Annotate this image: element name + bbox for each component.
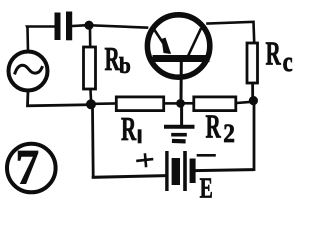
battery minus sign bbox=[198, 154, 215, 157]
resistor Rc bbox=[247, 43, 258, 83]
node A junction dot bbox=[84, 21, 93, 30]
ground bbox=[166, 107, 193, 141]
figure number 7 badge bbox=[7, 139, 56, 194]
capacitor C1 bbox=[55, 12, 73, 41]
wire Rc bottom to node C bbox=[251, 84, 254, 99]
wire node A to transistor bbox=[93, 25, 147, 27]
wire node B down to bottom rail bbox=[91, 108, 94, 177]
label E bbox=[200, 173, 213, 205]
resistor R2 bbox=[194, 97, 236, 111]
svg-text:R: R bbox=[105, 41, 121, 78]
svg-text:R: R bbox=[121, 111, 137, 148]
transistor VT1 bbox=[147, 15, 209, 101]
svg-text:7: 7 bbox=[15, 139, 39, 194]
svg-text:c: c bbox=[283, 46, 293, 78]
label Rb bbox=[105, 41, 131, 78]
label R2 bbox=[206, 109, 235, 148]
svg-text:2: 2 bbox=[223, 120, 235, 148]
AC source G1 bbox=[9, 52, 48, 91]
node B junction dot bbox=[86, 99, 96, 109]
wire AC top to corner bbox=[27, 27, 54, 52]
wire AC bottom to node B bbox=[28, 91, 87, 106]
battery E plates bbox=[165, 151, 195, 191]
node D base junction dot bbox=[176, 99, 185, 108]
wire right riser up to node C bbox=[253, 105, 256, 170]
wire C1 to node A bbox=[72, 24, 86, 27]
wire R2 right stub bbox=[237, 102, 250, 103]
wire transistor to top-right corner bbox=[208, 22, 255, 42]
label Rc bbox=[266, 36, 293, 78]
resistor R1 bbox=[116, 97, 163, 111]
wire R1 left stub bbox=[97, 102, 116, 105]
wire bottom rail left bbox=[93, 176, 165, 178]
wire R2 left stub bbox=[184, 102, 193, 105]
wire bottom rail right bbox=[196, 170, 252, 171]
battery plus sign bbox=[138, 155, 153, 167]
svg-text:R: R bbox=[206, 109, 222, 146]
svg-text:R: R bbox=[266, 36, 282, 73]
node C junction dot bbox=[249, 96, 258, 105]
label R1 bbox=[121, 111, 142, 148]
wire R1 right stub bbox=[165, 102, 178, 105]
wire Rb bottom to node B bbox=[89, 90, 92, 100]
svg-text:E: E bbox=[200, 173, 213, 205]
wire node A down to Rb bbox=[89, 29, 92, 46]
svg-text:b: b bbox=[119, 52, 131, 78]
resistor Rb bbox=[84, 47, 96, 89]
